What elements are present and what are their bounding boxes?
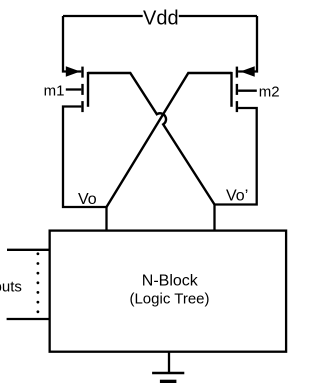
power rail Vdd wire left segment (63, 15, 143, 17)
N-Block box (50, 231, 286, 352)
label m2 (259, 84, 280, 101)
wire m1 drain to node Vo to N-Block (63, 107, 107, 231)
wire m2 gate cross-couple to node Vo (107, 73, 232, 207)
label Vdd (143, 7, 179, 29)
label N-Block (142, 273, 199, 290)
wire Vdd drop to m2 source (238, 16, 257, 72)
wire m2 drain to node Vo' to N-Block (215, 108, 257, 231)
input wire bottom (7, 318, 50, 320)
label m1 (44, 83, 65, 100)
transistor m1 (66, 67, 88, 113)
svg-text:m1: m1 (44, 83, 65, 100)
svg-text:Vo: Vo (78, 191, 97, 208)
label (Logic Tree) (129, 290, 209, 307)
input wire top (7, 249, 50, 251)
label Vo (78, 191, 97, 208)
svg-text:Vdd: Vdd (143, 7, 179, 29)
input dots (37, 252, 40, 313)
label Inputs (clipped at left edge) (0, 279, 22, 296)
m1 source arrow (66, 66, 80, 76)
wire N-Block to ground (168, 352, 170, 372)
label Vo' (226, 188, 248, 205)
ground (152, 373, 184, 383)
svg-text:N-Block: N-Block (142, 273, 199, 290)
wire Vdd drop to m1 source (63, 16, 81, 72)
power rail Vdd wire right segment (179, 15, 257, 17)
wire m1 gate cross-couple to node Vo' (with hop) (88, 73, 215, 205)
transistor m2 (232, 67, 257, 113)
svg-text:Inputs: Inputs (0, 279, 22, 296)
svg-text:m2: m2 (259, 84, 280, 101)
m2 source arrow (240, 66, 254, 76)
svg-text:(Logic Tree): (Logic Tree) (129, 290, 209, 307)
svg-text:Vo’: Vo’ (226, 188, 248, 205)
